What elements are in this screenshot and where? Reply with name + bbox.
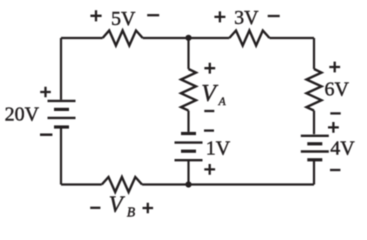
battery 1V (4 plates, - top)	[175, 134, 203, 161]
wire left branch upper (top wire down to 20V battery)	[60, 38, 62, 100]
resistor 6V (right vertical)	[307, 69, 322, 111]
wire top-left horizontal	[61, 37, 103, 39]
minus sign (1V top)	[204, 129, 214, 131]
battery 20V (4 plates, + top)	[48, 101, 76, 127]
wire 4V battery to bottom wire	[313, 160, 315, 185]
resistor VB (bottom)	[102, 177, 142, 192]
svg-text:6V: 6V	[324, 79, 349, 101]
node B (bottom junction dot)	[185, 181, 191, 187]
wire middle branch from node A down to VA resistor	[187, 38, 189, 69]
wire left branch lower (battery to bottom wire)	[60, 127, 62, 185]
resistor 3V (top-right)	[229, 31, 269, 46]
plus sign (1V bottom)	[204, 164, 215, 175]
minus sign (20V bottom)	[40, 133, 52, 136]
minus sign (5V right)	[147, 14, 159, 16]
svg-text:3V: 3V	[234, 7, 259, 29]
minus sign (6V bottom)	[330, 112, 340, 114]
minus sign (VB left)	[90, 207, 100, 209]
plus sign (5V left)	[90, 10, 101, 21]
plus sign (20V top)	[40, 87, 51, 98]
plus sign (VA top)	[204, 63, 215, 74]
svg-text:1V: 1V	[206, 138, 231, 160]
wire 1V battery to bottom node	[187, 160, 189, 184]
minus sign (3V right)	[268, 15, 280, 17]
wire bottom-left horizontal	[61, 183, 102, 185]
resistor VA (middle vertical)	[181, 69, 196, 111]
wire right branch from top corner down to 6V resistor	[313, 38, 315, 69]
battery 4V (4 plates, + top)	[301, 136, 329, 160]
svg-text:B: B	[127, 205, 135, 220]
plus sign (3V left)	[214, 11, 225, 22]
wire top-right to corner	[270, 37, 315, 39]
wire top-middle (between 5V resistor and node A)	[143, 37, 230, 39]
svg-text:20V: 20V	[5, 104, 40, 126]
plus sign (VB right)	[143, 203, 154, 214]
svg-text:5V: 5V	[111, 8, 136, 30]
wire bottom-middle (VB resistor to bottom node)	[142, 183, 189, 185]
node A (top junction dot)	[185, 35, 191, 41]
minus sign (VA bottom)	[204, 110, 214, 112]
resistor 5V (top-left)	[103, 31, 143, 46]
minus sign (4V bottom)	[330, 169, 340, 171]
plus sign (4V top)	[328, 122, 339, 133]
svg-text:V: V	[201, 81, 218, 107]
plus sign (6V top)	[329, 62, 340, 73]
wire VA resistor to 1V battery	[187, 111, 189, 132]
svg-text:4V: 4V	[330, 138, 355, 160]
svg-text:A: A	[218, 96, 227, 108]
wire 6V resistor to 4V battery	[313, 111, 315, 135]
wire bottom-right (bottom node to right corner)	[189, 183, 315, 185]
